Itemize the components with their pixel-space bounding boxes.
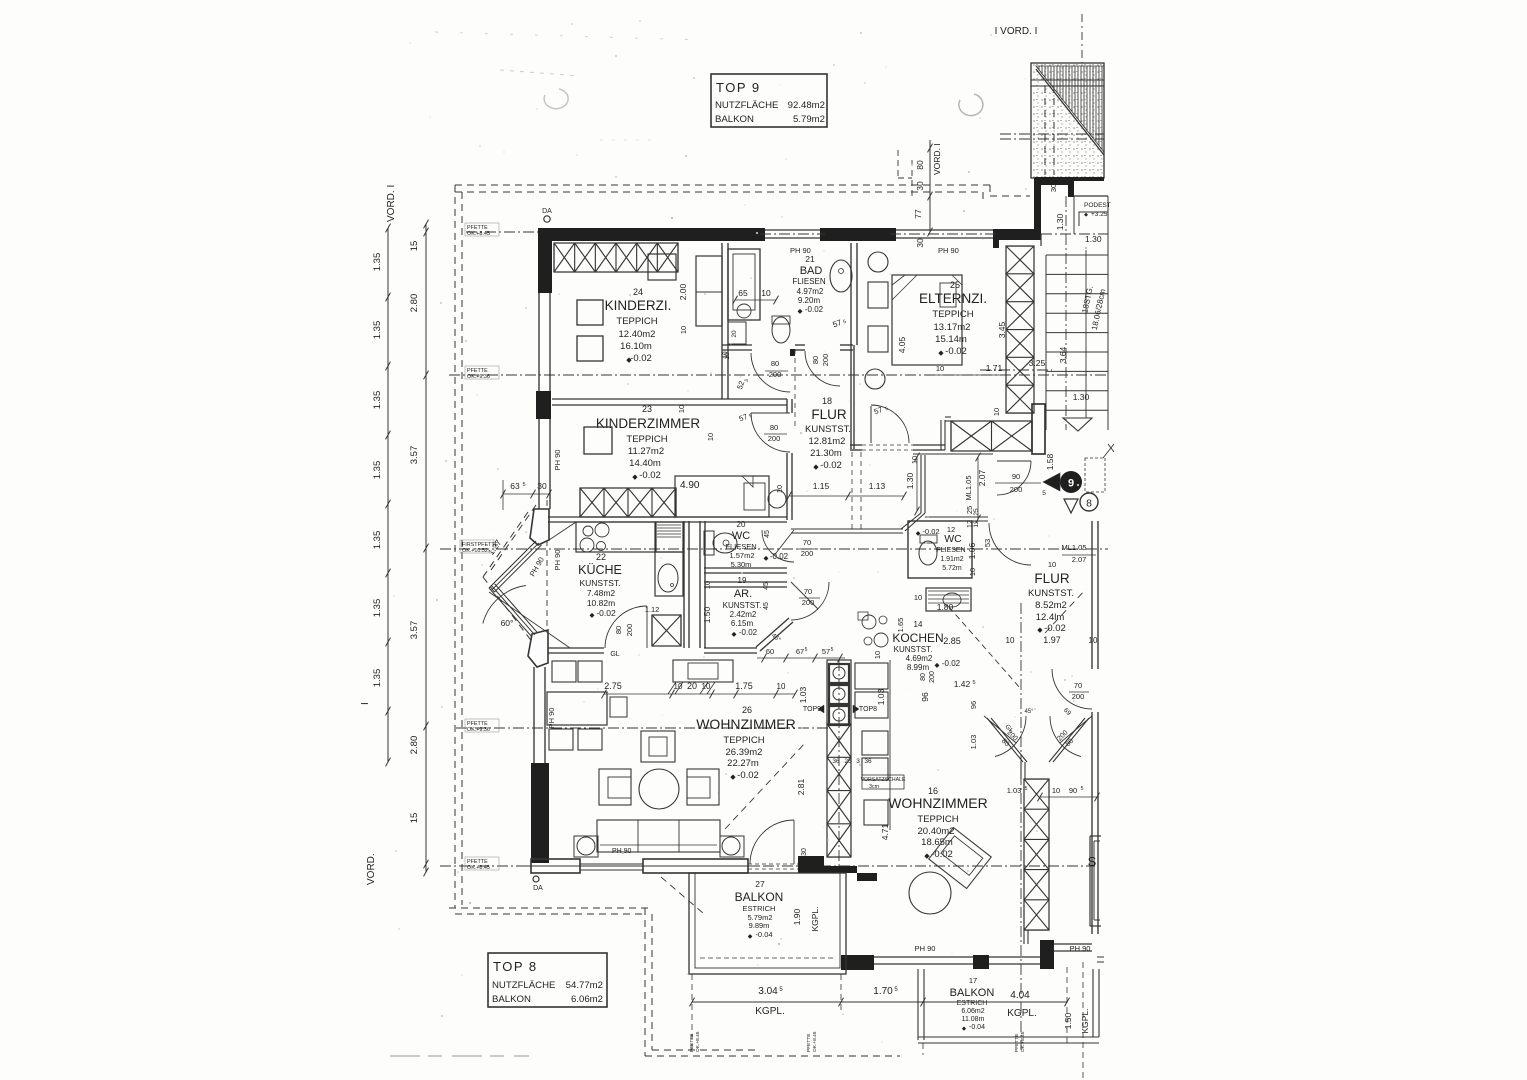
svg-text:3.04: 3.04 — [758, 986, 778, 997]
svg-text:200: 200 — [1010, 485, 1023, 494]
svg-text:1.97: 1.97 — [1043, 635, 1061, 645]
svg-text:10: 10 — [722, 351, 729, 359]
svg-text:10: 10 — [679, 326, 688, 334]
svg-text:3.57: 3.57 — [409, 446, 420, 465]
svg-text:16.10m: 16.10m — [620, 341, 652, 352]
svg-text:NUTZFLÄCHE: NUTZFLÄCHE — [715, 100, 778, 111]
svg-text:1.90: 1.90 — [792, 908, 802, 925]
svg-text:90: 90 — [1069, 786, 1077, 795]
svg-text:70: 70 — [803, 538, 811, 547]
svg-text:2.75: 2.75 — [604, 681, 622, 691]
svg-text:1.30: 1.30 — [1055, 213, 1065, 230]
svg-text:-0.02: -0.02 — [739, 628, 758, 637]
svg-text:23: 23 — [642, 404, 652, 414]
svg-text:ML1.05: ML1.05 — [964, 475, 973, 500]
svg-text:1.03: 1.03 — [798, 686, 808, 703]
svg-text:2.80: 2.80 — [409, 736, 420, 755]
svg-text:10: 10 — [914, 593, 922, 602]
svg-text:1.65: 1.65 — [896, 618, 905, 633]
svg-text:21: 21 — [805, 254, 815, 264]
svg-text:2.07: 2.07 — [977, 469, 987, 486]
svg-text:53: 53 — [983, 539, 992, 547]
svg-text:1.80: 1.80 — [937, 602, 954, 612]
svg-text:10: 10 — [873, 651, 882, 659]
svg-text:8: 8 — [1086, 498, 1092, 510]
svg-text:WOHNZIMMER: WOHNZIMMER — [696, 716, 796, 732]
svg-text:8.99m: 8.99m — [907, 663, 930, 672]
svg-text:10: 10 — [1006, 636, 1015, 645]
svg-text:15: 15 — [409, 241, 420, 252]
svg-text:2.81: 2.81 — [796, 778, 806, 795]
svg-text:1.30: 1.30 — [1073, 392, 1090, 402]
svg-text:200: 200 — [929, 671, 936, 683]
svg-text:4.05: 4.05 — [897, 336, 907, 353]
svg-text:◆: ◆ — [813, 464, 819, 471]
svg-text:6.06m2: 6.06m2 — [571, 994, 603, 1005]
svg-text:4.69m2: 4.69m2 — [906, 654, 933, 663]
svg-text:11.08m: 11.08m — [962, 1016, 985, 1023]
svg-text:9.89m: 9.89m — [749, 921, 770, 930]
svg-text:45: 45 — [763, 602, 770, 610]
svg-text:◆: ◆ — [632, 474, 638, 481]
svg-text:3.57: 3.57 — [409, 621, 420, 640]
svg-text:KGPL.: KGPL. — [755, 1006, 784, 1017]
svg-text:20.40m2: 20.40m2 — [918, 826, 955, 837]
svg-text:1.35: 1.35 — [372, 461, 383, 480]
svg-text:10: 10 — [1089, 636, 1098, 645]
svg-text:-0.02: -0.02 — [820, 460, 842, 471]
svg-text:TOP8: TOP8 — [859, 706, 877, 713]
svg-text:BALKON: BALKON — [715, 114, 754, 125]
svg-text:1.58: 1.58 — [1045, 453, 1055, 470]
svg-text:PH 90: PH 90 — [612, 848, 632, 855]
svg-text:18.65m: 18.65m — [921, 837, 953, 848]
svg-text:5: 5 — [1042, 490, 1046, 497]
svg-text:FLIESEN: FLIESEN — [936, 547, 965, 554]
svg-text:80: 80 — [920, 673, 927, 681]
svg-text:60: 60 — [766, 647, 774, 656]
svg-text:-0.04: -0.04 — [755, 930, 772, 939]
svg-text:TEPPICH: TEPPICH — [616, 316, 657, 327]
svg-text:21.30m: 21.30m — [810, 448, 842, 459]
svg-text:ESTRICH: ESTRICH — [743, 904, 776, 913]
svg-text:2.85: 2.85 — [943, 636, 961, 646]
svg-text:25: 25 — [973, 508, 980, 516]
svg-text:KÜCHE: KÜCHE — [578, 563, 622, 577]
svg-text:KUNSTST.: KUNSTST. — [723, 601, 762, 610]
svg-text:BALKON: BALKON — [492, 994, 531, 1005]
svg-text:3: 3 — [856, 758, 860, 765]
svg-text:FLUR: FLUR — [1034, 571, 1070, 586]
svg-text:KUNSTST.: KUNSTST. — [805, 424, 851, 435]
svg-text:PH 90: PH 90 — [553, 450, 562, 471]
svg-text:2.80: 2.80 — [409, 294, 420, 313]
svg-text:5: 5 — [1025, 786, 1028, 792]
svg-text:10: 10 — [1048, 560, 1056, 569]
svg-text:63: 63 — [510, 481, 520, 491]
svg-text:TEPPICH: TEPPICH — [917, 814, 958, 825]
svg-text:45: 45 — [764, 530, 771, 538]
svg-text:65: 65 — [738, 288, 748, 298]
svg-text:30: 30 — [1049, 184, 1058, 192]
svg-text:1.35: 1.35 — [372, 669, 383, 688]
svg-text:90: 90 — [1012, 472, 1020, 481]
svg-text:4.04: 4.04 — [1010, 990, 1030, 1001]
svg-text:3.64: 3.64 — [1058, 346, 1068, 363]
svg-text:22: 22 — [596, 552, 606, 562]
svg-text:ELTERNZI.: ELTERNZI. — [919, 291, 987, 306]
svg-text:OK.+8.45: OK.+8.45 — [812, 1031, 818, 1052]
svg-text:22.27m: 22.27m — [727, 758, 759, 769]
svg-text:80: 80 — [770, 423, 778, 432]
svg-text:36: 36 — [864, 758, 872, 765]
svg-text:TOP 9: TOP 9 — [716, 80, 761, 95]
svg-text:TOP 8: TOP 8 — [493, 959, 538, 974]
svg-text:1.03: 1.03 — [969, 735, 978, 750]
svg-text:12: 12 — [947, 525, 955, 534]
svg-text:10: 10 — [775, 485, 784, 493]
svg-text:1.12: 1.12 — [645, 605, 660, 614]
svg-text:12.40m2: 12.40m2 — [619, 329, 656, 340]
svg-text:WC: WC — [944, 533, 962, 545]
svg-text:S: S — [1088, 854, 1097, 869]
svg-text:5.79m2: 5.79m2 — [793, 114, 825, 125]
svg-text:1.35: 1.35 — [372, 321, 383, 340]
svg-text:VORD. I: VORD. I — [932, 143, 942, 175]
svg-text:DA: DA — [542, 208, 552, 215]
svg-text:96: 96 — [969, 701, 978, 709]
svg-text:70: 70 — [804, 587, 812, 596]
svg-text:3cm: 3cm — [869, 784, 879, 790]
svg-text:17: 17 — [969, 976, 977, 985]
svg-text:KUNSTST.: KUNSTST. — [1028, 588, 1074, 599]
svg-text:-0.02: -0.02 — [737, 770, 759, 781]
svg-text:KGPL.: KGPL. — [1080, 1008, 1090, 1033]
svg-text:10: 10 — [706, 433, 715, 441]
svg-text:TEPPICH: TEPPICH — [723, 735, 764, 746]
svg-text:1.57m2: 1.57m2 — [729, 551, 754, 560]
svg-text:-0.02: -0.02 — [596, 608, 616, 618]
svg-text:5.72m: 5.72m — [942, 565, 962, 572]
svg-text:VORD.: VORD. — [366, 853, 377, 885]
svg-text:◆: ◆ — [938, 350, 944, 357]
svg-text:PH 90: PH 90 — [1070, 944, 1091, 953]
svg-text:4.90: 4.90 — [680, 480, 700, 491]
svg-text:25: 25 — [844, 758, 852, 765]
svg-text:1.35: 1.35 — [372, 391, 383, 410]
svg-text:5: 5 — [972, 680, 975, 686]
svg-text:92.48m2: 92.48m2 — [788, 100, 825, 111]
svg-text:KUNSTST.: KUNSTST. — [894, 645, 933, 654]
svg-text:10: 10 — [761, 288, 771, 298]
svg-text:1.03: 1.03 — [876, 688, 886, 705]
svg-text:30: 30 — [915, 181, 925, 191]
svg-text:60°: 60° — [501, 618, 514, 628]
svg-text:200: 200 — [625, 624, 634, 637]
svg-text:ML1.05: ML1.05 — [1061, 543, 1086, 552]
svg-text:1.30: 1.30 — [905, 472, 915, 489]
svg-text:80: 80 — [771, 359, 779, 368]
svg-text:30: 30 — [801, 848, 808, 856]
svg-text:14: 14 — [914, 620, 923, 629]
svg-text:◆: ◆ — [1037, 627, 1043, 634]
svg-text:30: 30 — [537, 481, 547, 491]
svg-text:OK.+8.45: OK.+8.45 — [695, 1031, 701, 1052]
svg-text:5: 5 — [805, 647, 808, 653]
svg-text:1.30: 1.30 — [1085, 234, 1102, 244]
svg-text:10.82m: 10.82m — [587, 598, 615, 608]
svg-text:1.75: 1.75 — [735, 681, 753, 691]
svg-text:KGPL.: KGPL. — [1007, 1008, 1036, 1019]
svg-text:80: 80 — [811, 356, 820, 364]
svg-text:18: 18 — [822, 396, 832, 406]
svg-text:1.50: 1.50 — [702, 606, 712, 623]
svg-text:80: 80 — [614, 626, 623, 634]
svg-text:77: 77 — [913, 209, 923, 219]
svg-text:5: 5 — [522, 482, 525, 488]
svg-text:57: 57 — [822, 647, 830, 656]
svg-text:20: 20 — [737, 520, 746, 529]
svg-text:20: 20 — [731, 330, 738, 338]
svg-text:AR.: AR. — [734, 588, 752, 600]
svg-text:36: 36 — [832, 758, 840, 765]
svg-text:13.17m2: 13.17m2 — [934, 322, 971, 333]
svg-text:2.00: 2.00 — [678, 283, 688, 300]
svg-text:1.35: 1.35 — [372, 531, 383, 550]
svg-text:200: 200 — [768, 434, 781, 443]
svg-text:10: 10 — [1052, 786, 1060, 795]
svg-text:+3.25: +3.25 — [1091, 211, 1108, 218]
svg-text:-0.02: -0.02 — [639, 470, 661, 481]
svg-text:-0.02: -0.02 — [805, 305, 824, 314]
svg-text:7.48m2: 7.48m2 — [587, 588, 616, 598]
svg-text:TEPPICH: TEPPICH — [626, 434, 667, 445]
svg-text:9.20m: 9.20m — [798, 296, 821, 305]
svg-text:19: 19 — [738, 576, 747, 585]
svg-text:1.50: 1.50 — [1063, 1012, 1073, 1029]
svg-text:PH 90: PH 90 — [938, 246, 959, 255]
svg-text:6.06m2: 6.06m2 — [961, 1008, 984, 1015]
svg-text:◆: ◆ — [1084, 212, 1088, 218]
svg-text:GL: GL — [610, 651, 619, 658]
svg-text:54.77m2: 54.77m2 — [566, 980, 603, 991]
svg-text:PH 90: PH 90 — [547, 708, 556, 729]
svg-text:ESTRICH: ESTRICH — [957, 1000, 988, 1007]
svg-text:4.97m2: 4.97m2 — [797, 287, 824, 296]
svg-text:10: 10 — [936, 364, 944, 373]
svg-text:1.15: 1.15 — [813, 481, 830, 491]
svg-text:10: 10 — [910, 456, 919, 464]
svg-text:I VORD. I: I VORD. I — [995, 26, 1038, 37]
svg-text:◆: ◆ — [626, 357, 632, 364]
svg-text:FLUR: FLUR — [811, 407, 847, 422]
svg-text:1.42: 1.42 — [954, 679, 971, 689]
svg-text:30: 30 — [915, 238, 925, 248]
svg-text:WOHNZIMMER: WOHNZIMMER — [888, 795, 988, 811]
svg-text:26: 26 — [742, 705, 752, 715]
svg-text:OK.+8.45: OK.+8.45 — [1020, 1031, 1026, 1052]
svg-text:45: 45 — [763, 582, 770, 590]
svg-text:10: 10 — [677, 405, 686, 413]
svg-text:PFETTE: PFETTE — [806, 1034, 812, 1052]
svg-text:1.91m2: 1.91m2 — [940, 556, 963, 563]
svg-text:2.42m2: 2.42m2 — [730, 610, 757, 619]
svg-text:TEPPICH: TEPPICH — [932, 309, 973, 320]
svg-text:67: 67 — [796, 647, 804, 656]
svg-text:27: 27 — [755, 879, 765, 889]
svg-text:80: 80 — [915, 160, 925, 170]
svg-text:PH 90: PH 90 — [553, 550, 562, 571]
svg-text:6.15m: 6.15m — [731, 619, 754, 628]
svg-text:5: 5 — [831, 647, 834, 653]
svg-text:1.03: 1.03 — [1007, 786, 1022, 795]
svg-text:12.4lm: 12.4lm — [1036, 612, 1065, 623]
svg-text:1.35: 1.35 — [372, 253, 383, 272]
svg-text:-0.02: -0.02 — [1044, 623, 1066, 634]
svg-text:14.40m: 14.40m — [629, 458, 661, 469]
svg-text:26.39m2: 26.39m2 — [726, 747, 763, 758]
svg-text:5: 5 — [1081, 786, 1084, 792]
svg-text:KUNSTST.: KUNSTST. — [579, 578, 620, 588]
svg-text:BALKON: BALKON — [950, 987, 995, 999]
svg-text:◆: ◆ — [730, 774, 736, 781]
svg-text:NUTZFLÄCHE: NUTZFLÄCHE — [492, 980, 555, 991]
svg-text:I: I — [360, 702, 371, 705]
svg-text:15: 15 — [409, 813, 420, 824]
svg-text:PODEST: PODEST — [1084, 202, 1111, 209]
svg-text:BALKON: BALKON — [735, 890, 784, 904]
svg-text:10: 10 — [968, 568, 977, 576]
svg-text:-0.02: -0.02 — [945, 346, 967, 357]
svg-text:PH 90: PH 90 — [915, 944, 936, 953]
svg-text:1.71: 1.71 — [986, 363, 1003, 373]
svg-text:4.71: 4.71 — [880, 823, 890, 840]
svg-text:WC: WC — [732, 530, 750, 542]
svg-text:BAD: BAD — [800, 265, 823, 277]
svg-text:10: 10 — [992, 408, 1001, 416]
svg-text:200: 200 — [802, 598, 815, 607]
svg-text:9: 9 — [1068, 478, 1074, 490]
svg-text:1.35: 1.35 — [372, 599, 383, 618]
svg-text:FLIESEN: FLIESEN — [792, 277, 826, 286]
svg-text:-0.02: -0.02 — [630, 353, 652, 364]
svg-text:1.06: 1.06 — [967, 542, 977, 559]
svg-text:FLIESEN: FLIESEN — [725, 542, 756, 551]
svg-text:24: 24 — [633, 287, 643, 297]
svg-text:KGPL.: KGPL. — [810, 906, 820, 931]
svg-text:◆: ◆ — [916, 531, 921, 537]
svg-text:DA: DA — [533, 885, 543, 892]
svg-text:1.13: 1.13 — [869, 481, 886, 491]
svg-text:200: 200 — [821, 354, 830, 367]
svg-text:45°: 45° — [1024, 709, 1034, 715]
svg-text:-0.02: -0.02 — [942, 659, 961, 668]
svg-text:-0.04: -0.04 — [969, 1024, 985, 1031]
svg-text:12.81m2: 12.81m2 — [809, 436, 846, 447]
svg-text:1.70: 1.70 — [873, 986, 893, 997]
svg-text:KINDERZI.: KINDERZI. — [605, 298, 672, 313]
svg-text:200: 200 — [1072, 692, 1085, 701]
svg-text:◆: ◆ — [748, 934, 753, 940]
svg-text:96: 96 — [920, 692, 930, 702]
svg-text:-0.02: -0.02 — [922, 527, 939, 536]
svg-text:VORD. I: VORD. I — [386, 185, 397, 222]
svg-text:200: 200 — [801, 549, 814, 558]
svg-text:11.27m2: 11.27m2 — [628, 446, 664, 457]
svg-text:8.52m2: 8.52m2 — [1035, 600, 1067, 611]
svg-text:2.07: 2.07 — [1072, 555, 1087, 564]
